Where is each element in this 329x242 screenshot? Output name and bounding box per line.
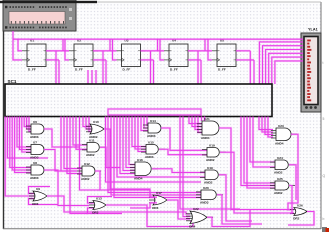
wire loop to U9 input [29,187,51,194]
wire SC1 to U25 input [244,117,275,184]
wire Q of U2 to D of U3 [93,50,117,52]
wire SC1 to U14 input [147,117,148,126]
svg-text:U11: U11 [89,138,95,142]
wire wordgen to clock of U1 [13,31,22,60]
wire SC1 to U16 input [123,117,135,171]
wire SC1 to U11 input [76,117,87,150]
AND3 U12 [77,162,101,181]
wire loop inside SC1 [108,109,201,115]
wire SC1 to U16 input [129,117,135,165]
OR3 U9 [29,187,53,206]
svg-text:D_FF: D_FF [28,68,36,72]
wire clock bus [13,38,303,40]
wire U19 out to U26 [220,152,294,213]
AND2 U11 [82,138,106,157]
wire loop to U13 input [88,197,113,204]
wire U15 out to U19 [159,149,207,154]
wire bus tap [204,39,206,51]
wire SC1 to U21 input [189,117,202,124]
wire SC1 to U21 input [198,117,202,133]
svg-text:U24: U24 [277,156,283,160]
svg-text:AND2: AND2 [206,158,215,162]
AND4 U21 [197,117,225,140]
wire SC1 to U23 input [262,117,273,133]
svg-text:OR3: OR3 [152,206,159,210]
svg-text:5: 5 [323,117,325,121]
wire U19b out [219,175,252,221]
wire SC1 to U13 loop [70,117,88,214]
wire SC1 to U6 input [29,117,31,132]
wire SC1 run [61,117,77,172]
wire SC1 long run [106,117,202,183]
svg-text:OR4: OR4 [189,225,196,229]
svg-text:b: b [323,217,325,221]
svg-text:U19: U19 [209,143,215,147]
wire Qbar down to SC1 [200,60,202,84]
svg-text:U8: U8 [33,161,37,165]
wire SC1 to U20 input [108,117,201,193]
wire Qbar of U3 [141,59,154,61]
wire SC1 to U6 input [27,117,31,130]
wire into SC1 top [95,70,97,84]
wire SC1 to U25 input [247,117,275,189]
wire U14 out to U19 [161,128,207,150]
wire loop to U9 input [29,199,59,205]
wire U13 out to U22 [106,205,193,227]
wire U8 out to U13 [44,170,89,206]
wire SC1 to analyzer ch6 [275,61,303,84]
wire SC1 to U16 input [120,117,135,174]
OR2 U26 [290,203,313,220]
wire SC1 to U8 input [12,117,31,171]
wire SC1 to U15 input [135,117,146,150]
svg-text:U16: U16 [137,158,143,162]
D flip-flop U3 [117,39,146,72]
wire SC1 to analyzer ch3 [266,50,303,85]
wire Q down to SC1 [55,51,57,84]
svg-text:AND2: AND2 [274,171,283,175]
sheet border bottom [3,228,321,230]
wire SC1 to U15 input [138,117,146,152]
wire U21 out to U26 [219,128,294,210]
logic analyzer XLA1 [301,33,321,112]
wire loop to U17 input [130,203,157,208]
AND2 U19 [202,143,226,162]
svg-text:AND2: AND2 [204,181,213,185]
svg-text:Q: Q [323,174,326,178]
wire into SC1 top [87,70,89,84]
wire Qbar down to SC1 [152,60,154,84]
wire SC1 stub [203,117,205,122]
wire SC1 to U22 input [183,117,190,217]
wire Q of U1 to D of U2 [46,50,69,52]
wire Qbar of U4 [188,59,201,61]
svg-text:AND3: AND3 [145,155,154,159]
wire bus tap [156,39,158,51]
wire bus to D of U1 [18,39,22,51]
wire SC1 to U20 input [114,117,201,198]
word generator XWG1 [0,0,97,31]
wire U25 out to U26 [289,186,292,214]
wire into SC1 top [91,70,93,84]
wire SC1 to U10 input [86,117,92,130]
wire SC1 to U7 input [22,117,31,153]
subcircuit SC1 box [5,84,272,117]
corner marker [322,227,327,232]
svg-text:U14: U14 [150,119,156,123]
svg-text:t: t [323,61,324,65]
OR3 U13 [89,196,112,214]
wire SC1 to U25 input [241,117,275,186]
wire U16 out to U19b [152,169,205,173]
wire SC1 long down [180,117,240,210]
wire SC1 to U6 input [24,117,31,127]
svg-text:U15: U15 [148,140,154,144]
svg-text:D_FF: D_FF [123,68,131,72]
D flip-flop U5 [212,39,241,72]
svg-text:U10: U10 [93,120,99,124]
wire SC1 run [7,117,48,159]
svg-text:OR2: OR2 [293,217,300,221]
D flip-flop U4 [164,39,193,72]
wire SC1 to U8 input [10,117,31,168]
wire U20 out [217,195,262,224]
svg-text:AND3: AND3 [30,135,39,139]
wire Qbar of U2 [93,59,106,61]
wire SC1 to U14 input [141,117,148,131]
sheet border top [97,1,321,3]
wire Q of U5 [236,50,250,52]
sheet border right [320,2,322,229]
AND3 U8 [26,161,50,180]
AND2 U24 [270,156,295,175]
wire Qbar down to SC1 [105,60,107,84]
wire SC1 to U9 input [5,117,34,197]
svg-text:U25: U25 [277,177,283,181]
wire SC1 to U15 input [132,117,146,147]
svg-text:U23: U23 [278,124,284,128]
wire Qbar of U1 [46,59,59,61]
svg-text:U22: U22 [193,207,199,211]
sheet border left [3,2,5,229]
wire clock to U2 [65,39,69,60]
svg-text:U20: U20 [203,186,209,190]
wire clock to U5 [208,39,212,60]
svg-text:AND2: AND2 [274,191,283,195]
wire SC1 to U23 input [268,117,273,138]
wire U17 out to U22 [167,200,190,219]
AND3 U20 [196,186,223,205]
wire SC1 to U23 input [265,117,273,135]
wire Q down to SC1 [149,51,151,84]
wire SC1 to U24 input [253,117,275,168]
svg-text:AND4: AND4 [275,142,284,146]
wire loop to U13 input [88,208,123,214]
wire bus tap [109,39,111,51]
D flip-flop U2 [69,39,98,72]
wire SC1 to U16 input [126,117,135,168]
wire SC1 to U21 input [192,117,202,127]
D flip-flop U1 [22,39,51,72]
svg-text:D_FF: D_FF [170,68,178,72]
wire SC1 to U20 input [111,117,201,196]
svg-text:AND3: AND3 [30,176,39,180]
wire SC1 to analyzer ch5 [272,57,303,84]
svg-text:AND4: AND4 [134,177,143,181]
AND2 U18 [200,166,225,185]
svg-text:AND2: AND2 [86,153,95,157]
svg-text:D_FF: D_FF [75,68,83,72]
wire U24 out down [289,165,296,200]
svg-text:AND2: AND2 [81,177,90,181]
wire SC1 to U11 input [73,117,87,146]
AND4 U16 [130,158,158,181]
wire SC1 to U24 input [250,117,275,163]
svg-text:U7: U7 [33,140,37,144]
AND3 U6 [26,120,50,139]
wire clock to U4 [160,39,164,60]
wire SC1 to analyzer ch1 [259,42,303,84]
wire SC1 long run [80,117,101,191]
wire SC1 to U12 input [67,117,82,174]
wire Q of U5 down to SC1 [249,51,251,84]
wire U6 out to U11 [44,129,79,147]
svg-text:AND3: AND3 [30,156,39,160]
wire Q of U3 to D of U4 [141,50,165,52]
svg-text:U12: U12 [84,162,90,166]
wire U11 out to U16 [100,147,120,167]
OR3 U17 [149,191,173,210]
wire U22 out [207,210,250,227]
wire U7 out to U12 [44,150,77,172]
svg-text:AND3: AND3 [147,134,156,138]
svg-text:YLA1: YLA1 [308,28,318,32]
svg-text:U17: U17 [156,191,162,195]
wire SC1 to analyzer ch2 [263,46,304,84]
svg-text:D_FF: D_FF [218,68,226,72]
wire clock to U3 [113,39,117,60]
wire bus tap [62,39,64,51]
svg-text:OR3: OR3 [32,202,39,206]
AND3 U15 [141,140,165,159]
wire SC1 to U19b input [117,117,205,178]
wire loop to U17 input [130,189,157,197]
wire U10 out [104,129,130,189]
svg-text:AND4: AND4 [201,136,210,140]
AND3 U25 [270,177,295,195]
AND3 U14 [143,119,167,138]
wire U9 out to U22 [47,196,190,214]
wire SC1 stub [200,117,202,122]
AND4 U23 [271,124,297,146]
wire SC1 to U14 input [144,117,148,129]
svg-text:U13: U13 [96,196,102,200]
wire U12 out [95,171,150,190]
wire Qbar of U5 down to SC1 [253,60,255,84]
svg-text:U19: U19 [207,166,213,170]
wire SC1 to U7 input [19,117,31,150]
svg-text:U9: U9 [36,187,40,191]
wire SC1 to analyzer ch4 [269,53,303,84]
wire SC1 to U10 input [83,117,92,127]
wire U23 out loop to U26 [288,134,298,209]
wire SC1 to U21 input [195,117,202,130]
wire Q down to SC1 [102,51,104,84]
wire SC1 to U10 input [89,117,92,132]
wire U26 out loop [288,212,314,226]
svg-text:U6: U6 [33,120,37,124]
svg-text:AND3: AND3 [200,201,209,205]
wire SC1 to U8 input [15,117,31,173]
AND3 U7 [26,140,50,159]
wire Qbar down to SC1 [58,60,60,84]
wire Q of U4 to D of U5 [188,50,212,52]
wire Qbar of U5 [236,59,254,61]
svg-text:OR3: OR3 [92,211,99,215]
wire SC1 to U7 input [17,117,31,148]
svg-text:SC1: SC1 [8,79,17,84]
OR4 U22 [186,207,213,229]
XOR U10 [86,120,110,139]
wire SC1 to U12 input [64,117,82,169]
svg-text:U21: U21 [204,117,210,121]
wire SC1 to U23 input [259,117,273,130]
wire Q down to SC1 [197,51,199,84]
